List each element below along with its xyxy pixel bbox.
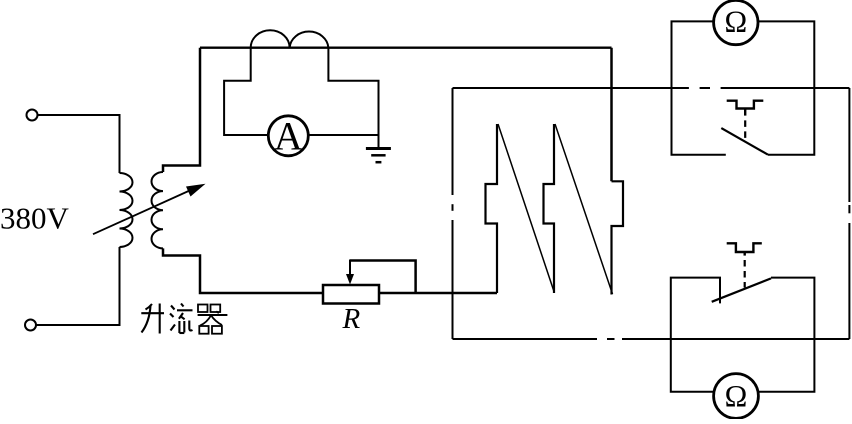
ohmmeter box bottom	[671, 278, 815, 392]
transformer variability arrow	[93, 184, 206, 234]
disconnector blade 2	[555, 124, 613, 294]
wire CT left tap to ammeter	[224, 48, 268, 135]
current transformer T2 humps	[251, 30, 329, 47]
wire secondary top to top line	[163, 48, 200, 172]
terminal bottom input	[25, 320, 36, 331]
resistor slider arrow	[346, 260, 354, 285]
enclosure boundary bottom	[453, 338, 850, 340]
label R	[342, 303, 361, 335]
wire R to disconnector	[379, 292, 497, 295]
switch S2 blade	[712, 278, 771, 301]
node 380V source label	[0, 201, 70, 236]
wire CT right tap to ground	[328, 48, 378, 148]
switch S2 operator symbol	[727, 243, 762, 287]
svg-text:R: R	[342, 303, 361, 335]
wire secondary bottom to R	[163, 248, 323, 293]
wire bottom input to transformer	[36, 247, 120, 325]
ammeter A1	[268, 114, 308, 159]
svg-text:Ω: Ω	[725, 379, 748, 413]
transformer T1 primary winding	[120, 173, 133, 247]
wire ammeter to ground node	[308, 134, 378, 136]
svg-text:Ω: Ω	[724, 4, 747, 38]
terminal top input	[27, 110, 38, 121]
ohmmeter box top	[672, 21, 815, 154]
wire top line	[200, 47, 612, 49]
disconnector post 3	[612, 181, 624, 294]
disconnector post 2	[544, 124, 555, 293]
disconnector blade 1	[498, 124, 554, 292]
resistor R	[323, 285, 379, 304]
svg-text:A: A	[274, 114, 303, 159]
enclosure boundary left	[452, 88, 454, 339]
enclosure boundary right	[848, 88, 850, 339]
ohmmeter O2	[714, 374, 759, 419]
enclosure boundary top	[453, 87, 850, 89]
svg-text:380V: 380V	[0, 201, 70, 236]
wire top input to transformer	[38, 115, 120, 173]
transformer T1 secondary winding	[152, 172, 164, 248]
wire slider tap loop	[350, 261, 416, 294]
disconnector post 1	[486, 124, 498, 293]
ground	[366, 149, 391, 163]
wire top line drop at x611	[610, 48, 613, 182]
switch S1 blade	[721, 128, 768, 155]
ohmmeter O1	[714, 0, 758, 44]
label 升流器 (hand-drawn strokes)	[141, 304, 227, 334]
switch S1 operator symbol	[727, 101, 764, 141]
